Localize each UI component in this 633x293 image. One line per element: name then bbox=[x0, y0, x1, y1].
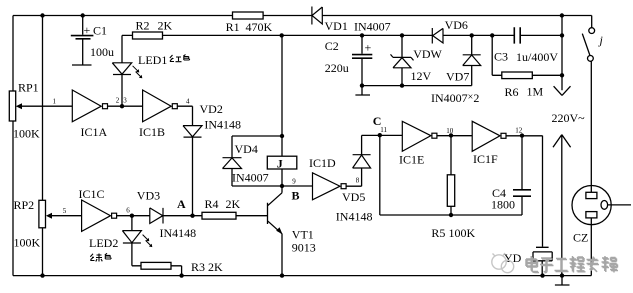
svg-text:A: A bbox=[177, 197, 186, 211]
svg-text:2K: 2K bbox=[226, 197, 241, 211]
svg-text:12V: 12V bbox=[411, 69, 432, 83]
svg-text:C3: C3 bbox=[494, 50, 508, 64]
svg-text:6: 6 bbox=[126, 207, 130, 215]
svg-text:100K: 100K bbox=[13, 127, 40, 141]
svg-text:CZ: CZ bbox=[573, 230, 588, 244]
svg-text:VDW: VDW bbox=[413, 47, 442, 61]
svg-text:1: 1 bbox=[53, 98, 57, 106]
svg-text:C1: C1 bbox=[93, 24, 107, 38]
svg-text:100K: 100K bbox=[14, 236, 41, 250]
svg-text:3: 3 bbox=[123, 97, 127, 105]
svg-text:11: 11 bbox=[380, 126, 387, 134]
svg-text:LED2: LED2 bbox=[89, 236, 118, 250]
svg-text:C2: C2 bbox=[325, 39, 339, 53]
svg-text:B: B bbox=[292, 189, 300, 203]
svg-text:5: 5 bbox=[63, 207, 67, 215]
svg-text:R5: R5 bbox=[431, 226, 445, 240]
svg-text:LED1: LED1 bbox=[138, 53, 167, 67]
svg-text:VD1: VD1 bbox=[325, 19, 348, 33]
svg-text:+: + bbox=[84, 23, 91, 37]
svg-text:1800: 1800 bbox=[491, 198, 515, 212]
svg-text:IC1B: IC1B bbox=[139, 125, 165, 139]
svg-text:VD4: VD4 bbox=[235, 142, 258, 156]
svg-text:IN4148: IN4148 bbox=[204, 118, 241, 132]
svg-text:RP2: RP2 bbox=[14, 198, 35, 212]
svg-text:100K: 100K bbox=[449, 226, 476, 240]
svg-text:IC1F: IC1F bbox=[473, 152, 498, 166]
svg-text:12: 12 bbox=[515, 127, 523, 135]
svg-text:IN4007: IN4007 bbox=[354, 20, 391, 34]
svg-text:+: + bbox=[365, 41, 372, 55]
svg-text:2: 2 bbox=[116, 97, 120, 105]
svg-text:R3: R3 bbox=[191, 260, 205, 274]
svg-text:IN4007×2: IN4007×2 bbox=[431, 91, 479, 105]
svg-text:220V~: 220V~ bbox=[552, 111, 586, 125]
svg-text:RP1: RP1 bbox=[18, 81, 39, 95]
svg-text:VT1: VT1 bbox=[292, 227, 314, 241]
svg-text:IN4148: IN4148 bbox=[160, 226, 197, 240]
svg-text:R6: R6 bbox=[505, 85, 519, 99]
svg-text:IC1A: IC1A bbox=[81, 125, 108, 139]
svg-text:R1: R1 bbox=[226, 20, 240, 34]
svg-text:IC1D: IC1D bbox=[309, 156, 336, 170]
svg-text:1u/400V: 1u/400V bbox=[516, 50, 558, 64]
svg-text:100u: 100u bbox=[90, 45, 114, 59]
svg-text:9013: 9013 bbox=[292, 240, 316, 254]
svg-text:VD7: VD7 bbox=[446, 69, 469, 83]
svg-text:9: 9 bbox=[292, 177, 296, 185]
svg-text:VD5: VD5 bbox=[342, 190, 365, 204]
svg-text:IC1E: IC1E bbox=[399, 153, 424, 167]
svg-text:8: 8 bbox=[356, 177, 360, 185]
svg-text:IN4007: IN4007 bbox=[232, 171, 269, 185]
svg-text:1M: 1M bbox=[527, 85, 544, 99]
svg-text:VD2: VD2 bbox=[200, 102, 223, 116]
svg-text:IN4148: IN4148 bbox=[336, 209, 373, 223]
svg-text:R4: R4 bbox=[205, 197, 219, 211]
svg-text:2K: 2K bbox=[158, 19, 173, 33]
svg-text:220u: 220u bbox=[325, 61, 349, 75]
svg-text:4: 4 bbox=[186, 98, 190, 106]
svg-text:2K: 2K bbox=[208, 260, 223, 274]
svg-text:470K: 470K bbox=[246, 20, 273, 34]
svg-text:10: 10 bbox=[446, 127, 454, 135]
svg-text:IC1C: IC1C bbox=[79, 187, 105, 201]
svg-text:VD3: VD3 bbox=[137, 188, 160, 202]
svg-text:J: J bbox=[277, 156, 283, 170]
svg-text:VD6: VD6 bbox=[445, 18, 468, 32]
svg-text:R2: R2 bbox=[136, 19, 150, 33]
